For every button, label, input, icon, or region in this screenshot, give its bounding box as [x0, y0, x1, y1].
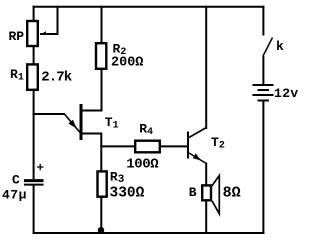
resistor R1 body — [27, 64, 38, 89]
wire T2 emitter to speaker B — [205, 164, 207, 186]
capacitor C polarity plus — [37, 164, 44, 171]
svg-text:B: B — [189, 185, 197, 200]
svg-text:100Ω: 100Ω — [126, 156, 159, 172]
svg-text:k: k — [276, 39, 284, 54]
wire RP to R1 — [33, 47, 35, 65]
svg-text:2.7k: 2.7k — [41, 69, 72, 85]
svg-text:8Ω: 8Ω — [223, 185, 241, 202]
svg-text:12v: 12v — [274, 86, 299, 101]
RP wiper arrowhead — [40, 31, 46, 35]
wire top rail to T2 collector — [205, 7, 207, 128]
wire R3 to bottom rail — [100, 198, 102, 234]
capacitor C top plate — [24, 179, 44, 182]
switch k blade — [263, 38, 273, 57]
wire R1 to capacitor C — [33, 91, 35, 180]
speaker B cone — [212, 176, 219, 214]
svg-text:RP: RP — [9, 29, 25, 44]
battery long plate 1 — [254, 84, 273, 86]
svg-text:47μ: 47μ — [2, 187, 27, 202]
RP wiper arm — [41, 7, 58, 34]
wire C to bottom rail — [33, 186, 35, 234]
wire speaker to bottom rail — [205, 201, 207, 233]
wire switch to battery — [262, 57, 264, 84]
wire top rail to R2 — [101, 7, 103, 43]
battery short plate 2 — [259, 100, 269, 102]
battery short plate 1 — [259, 89, 269, 91]
wire bottom rail — [34, 232, 264, 234]
resistor R2 body — [96, 43, 106, 69]
resistor R4 body — [135, 141, 160, 153]
capacitor C bottom plate — [24, 184, 44, 186]
svg-text:330Ω: 330Ω — [110, 185, 145, 201]
transistor T2 emitter diagonal — [189, 153, 206, 163]
transistor T2 base bar — [187, 132, 189, 159]
resistor R3 body — [98, 171, 107, 196]
svg-text:C: C — [12, 172, 20, 187]
transistor T2 emitter arrow — [193, 153, 201, 160]
wire R2 to T1 collector — [82, 70, 102, 111]
wire top rail — [34, 6, 264, 8]
battery long plate 2 — [254, 94, 273, 96]
wire R4 to T2 base — [160, 145, 188, 147]
transistor T1 base bar — [80, 104, 83, 140]
transistor T1 arrow — [68, 120, 76, 129]
transistor T1 base diagonal lead — [64, 114, 80, 133]
wire T1 emitter to node A — [82, 134, 101, 172]
junction dot node B (R3 / bottom rail) — [98, 227, 104, 233]
transistor T2 collector diagonal — [189, 128, 206, 138]
speaker B frame — [202, 185, 211, 200]
wire right rail to switch k — [262, 7, 264, 35]
wire T1 base from left rail — [34, 113, 64, 115]
wire node A to R4 — [101, 145, 135, 147]
wire battery to bottom rail — [262, 101, 264, 233]
potentiometer RP body — [27, 21, 38, 46]
wire left rail to RP — [33, 7, 35, 21]
svg-text:200Ω: 200Ω — [111, 55, 143, 70]
